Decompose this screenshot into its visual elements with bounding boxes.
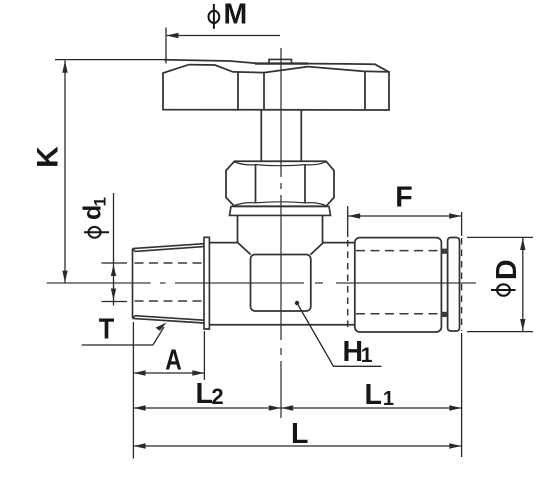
- svg-text:L: L: [291, 418, 308, 450]
- svg-text:L1: L1: [365, 379, 395, 411]
- svg-text:M: M: [224, 0, 248, 31]
- dimension phiM: [166, 28, 280, 64]
- svg-text:D: D: [491, 259, 523, 280]
- dimension L2: [134, 407, 281, 409]
- thread hidden bore: [135, 263, 205, 301]
- horizontal centerline: [47, 282, 476, 284]
- vertical centerline: [280, 48, 282, 418]
- dimension F: [348, 206, 462, 237]
- washer: [230, 206, 331, 215]
- bonnet: [238, 215, 323, 242]
- packing nut: [226, 161, 334, 206]
- flange: [204, 237, 209, 329]
- valve body: [209, 243, 354, 325]
- svg-text:A: A: [165, 345, 182, 377]
- leader H1: [297, 303, 382, 366]
- left extension line: [132, 322, 134, 459]
- right fitting block: [355, 238, 442, 332]
- svg-text:1: 1: [91, 197, 110, 206]
- dimension L: [134, 445, 462, 447]
- male thread T: [133, 244, 205, 323]
- right extension line: [461, 212, 463, 457]
- dimension A: [203, 331, 205, 380]
- dimension phiD: [467, 237, 533, 331]
- svg-text:L2: L2: [196, 378, 224, 410]
- dimension phid1: [102, 193, 128, 306]
- release collar: [448, 238, 460, 332]
- handle top cap: [255, 59, 308, 63]
- leader T: [82, 327, 164, 345]
- svg-text:K: K: [32, 146, 65, 168]
- handle knob: [163, 60, 389, 110]
- fitting hidden bore: [356, 251, 441, 314]
- dimension L1: [281, 407, 461, 409]
- gripper junction marks: [441, 249, 448, 254]
- svg-text:F: F: [395, 182, 412, 214]
- dimension K: [55, 60, 167, 283]
- svg-text:H1: H1: [343, 336, 373, 368]
- stem: [261, 110, 301, 161]
- svg-text:T: T: [99, 314, 115, 346]
